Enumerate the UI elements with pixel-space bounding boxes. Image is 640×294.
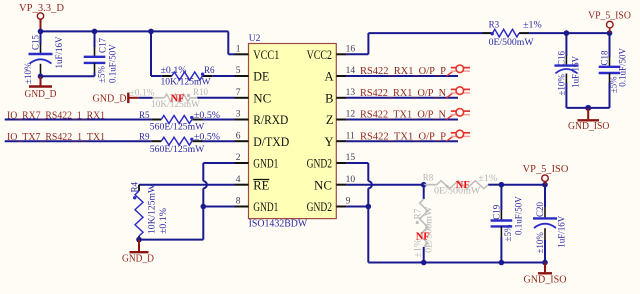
pin 1 VCC1 bbox=[235, 53, 249, 55]
svg-text:13: 13 bbox=[346, 88, 356, 98]
svg-text:0.1uF/50V: 0.1uF/50V bbox=[108, 44, 118, 83]
node R4 bottom bbox=[136, 237, 142, 243]
svg-text:16: 16 bbox=[346, 44, 356, 54]
pin 2 GND1 bbox=[235, 162, 249, 164]
svg-text:IO_TX7_RS422_1_TX1: IO_TX7_RS422_1_TX1 bbox=[7, 132, 105, 143]
svg-text:R10: R10 bbox=[193, 87, 209, 97]
svg-text:C16: C16 bbox=[557, 50, 567, 66]
ground GND_D (left) bbox=[40, 76, 42, 86]
svg-text:GND_ISO: GND_ISO bbox=[524, 274, 567, 285]
node pin8 junction bbox=[201, 204, 207, 210]
pin 11 Y bbox=[336, 140, 346, 142]
svg-text:VCC2: VCC2 bbox=[307, 48, 332, 62]
svg-text:12: 12 bbox=[346, 110, 356, 120]
wire RS422_TX1_O/P_P bbox=[346, 140, 458, 142]
harness port RS422_RX1_O/P_N bbox=[447, 93, 453, 98]
svg-text:±5%: ±5% bbox=[503, 224, 513, 241]
svg-text:0E/500mW: 0E/500mW bbox=[424, 206, 434, 253]
svg-text:6: 6 bbox=[236, 131, 241, 141]
wire C16-C18 gnd bbox=[566, 107, 609, 109]
wire VCC2 to rail bbox=[346, 53, 368, 55]
wire C15-C17 gnd bbox=[41, 75, 95, 77]
svg-text:1: 1 bbox=[236, 44, 241, 54]
svg-text:±1%: ±1% bbox=[523, 19, 542, 29]
svg-text:VP_5_ISO: VP_5_ISO bbox=[588, 11, 631, 22]
svg-text:R9: R9 bbox=[139, 132, 150, 142]
svg-text:IO_RX7_RS422_1_RX1: IO_RX7_RS422_1_RX1 bbox=[7, 110, 105, 121]
wire IO_TX7 net bbox=[5, 140, 152, 142]
svg-text:7: 7 bbox=[236, 88, 241, 98]
svg-text:GND_ISO: GND_ISO bbox=[568, 121, 610, 132]
svg-text:VCC1: VCC1 bbox=[253, 48, 279, 62]
svg-text:0.1uF/50V: 0.1uF/50V bbox=[617, 47, 627, 86]
resistor R9 bbox=[161, 137, 192, 145]
svg-text:±0.5%: ±0.5% bbox=[194, 132, 221, 142]
svg-text:9: 9 bbox=[346, 197, 351, 207]
ground GND_ISO (top) bbox=[587, 108, 589, 119]
svg-text:±1%: ±1% bbox=[478, 173, 498, 183]
wire NC net bbox=[139, 97, 153, 99]
power port VP_5_ISO (bottom) bbox=[544, 181, 546, 185]
pin 6 D/TXD bbox=[235, 140, 249, 142]
svg-text:3: 3 bbox=[236, 110, 241, 120]
svg-text:±10%: ±10% bbox=[557, 74, 567, 96]
svg-text:GND1: GND1 bbox=[253, 200, 278, 214]
svg-text:C15: C15 bbox=[31, 34, 41, 50]
svg-text:R4: R4 bbox=[130, 181, 140, 192]
wire RS422_RX1_O/P_N bbox=[346, 97, 458, 99]
pin 3 R/RXD bbox=[235, 119, 249, 121]
harness port RS422_TX1_O/P_P bbox=[447, 137, 453, 142]
node C17 top bbox=[92, 29, 98, 35]
wire VP_3.3_D rail bbox=[41, 30, 229, 32]
svg-text:GND2: GND2 bbox=[307, 157, 332, 171]
svg-text:15: 15 bbox=[346, 153, 356, 163]
svg-text:±10%: ±10% bbox=[23, 62, 33, 84]
svg-text:±10%: ±10% bbox=[535, 232, 545, 254]
svg-text:560E/125mW: 560E/125mW bbox=[150, 144, 205, 154]
svg-text:RS422_TX1_O/P_P: RS422_TX1_O/P_P bbox=[360, 131, 446, 142]
svg-text:8: 8 bbox=[236, 197, 241, 207]
svg-text:C20: C20 bbox=[535, 201, 545, 217]
resistor R7 (not fitted) bbox=[423, 185, 425, 199]
wire RS422_RX1_O/P_P bbox=[346, 75, 458, 77]
pin 14 A bbox=[336, 75, 346, 77]
power port VP_3.3_D bbox=[37, 13, 43, 19]
svg-text:0.1uF/50V: 0.1uF/50V bbox=[514, 196, 524, 235]
pin 13 B bbox=[336, 97, 346, 99]
svg-text:C19: C19 bbox=[492, 204, 502, 220]
svg-text:±0.5%: ±0.5% bbox=[194, 110, 221, 120]
svg-text:NF: NF bbox=[416, 232, 430, 243]
svg-text:±0.1%: ±0.1% bbox=[130, 87, 156, 97]
capacitor C19 bbox=[500, 185, 502, 210]
node R7 top bbox=[421, 182, 427, 188]
svg-text:4: 4 bbox=[236, 175, 241, 185]
node C19 top bbox=[499, 182, 505, 188]
node C15 top bbox=[38, 29, 44, 35]
svg-text:A: A bbox=[324, 70, 333, 84]
node pin9 junction bbox=[366, 204, 372, 210]
svg-text:C18: C18 bbox=[600, 50, 610, 66]
op-amp U2 ISO1432BDW body bbox=[249, 44, 337, 219]
svg-text:GND_D: GND_D bbox=[122, 253, 154, 264]
svg-text:NF: NF bbox=[171, 94, 185, 105]
svg-text:14: 14 bbox=[346, 66, 356, 76]
svg-text:NC: NC bbox=[253, 92, 271, 106]
svg-text:RS422_RX1_O/P_P: RS422_RX1_O/P_P bbox=[360, 66, 446, 77]
pin 12 Z bbox=[336, 119, 346, 121]
node C20 bottom bbox=[542, 260, 548, 266]
resistor R3 bbox=[493, 29, 519, 37]
capacitor C20 bbox=[544, 185, 546, 207]
pin 15 GND2 bbox=[336, 162, 346, 164]
wire GND2 net bbox=[346, 162, 368, 164]
resistor R10 (not fitted) bbox=[153, 97, 165, 99]
svg-text:2: 2 bbox=[236, 153, 241, 163]
node C19 bottom bbox=[499, 260, 505, 266]
resistor R8 (not fitted) bbox=[437, 181, 488, 189]
svg-text:Y: Y bbox=[324, 135, 333, 149]
svg-text:Z: Z bbox=[326, 113, 334, 127]
node DE branch bbox=[148, 29, 154, 35]
svg-text:DE: DE bbox=[253, 70, 269, 84]
svg-text:R/RXD: R/RXD bbox=[253, 113, 288, 127]
svg-text:D/TXD: D/TXD bbox=[253, 135, 289, 149]
power port VP_5_ISO (top) bbox=[607, 30, 613, 36]
svg-text:RE: RE bbox=[253, 178, 269, 192]
svg-text:±5%: ±5% bbox=[97, 66, 107, 83]
resistor R4 bbox=[138, 185, 140, 191]
svg-text:±0.1%: ±0.1% bbox=[161, 65, 188, 75]
svg-text:1uF/16V: 1uF/16V bbox=[54, 36, 64, 69]
svg-text:R8: R8 bbox=[423, 173, 434, 183]
pin 7 NC bbox=[235, 97, 249, 99]
svg-text:VP_3.3_D: VP_3.3_D bbox=[19, 3, 64, 14]
svg-text:ISO1432BDW: ISO1432BDW bbox=[249, 219, 308, 230]
capacitor C18 bbox=[609, 33, 611, 57]
svg-text:GND_D: GND_D bbox=[25, 89, 57, 100]
resistor R6 bbox=[172, 72, 203, 80]
node C20 top bbox=[542, 182, 548, 188]
svg-text:NF: NF bbox=[456, 180, 470, 191]
svg-text:NC: NC bbox=[314, 178, 332, 192]
svg-text:R7: R7 bbox=[413, 208, 423, 219]
svg-text:GND_D: GND_D bbox=[93, 94, 127, 105]
wire GND1 net bbox=[203, 162, 234, 164]
svg-text:11: 11 bbox=[346, 131, 355, 141]
wire NC pin10 net bbox=[346, 184, 423, 186]
svg-text:10K/125mW: 10K/125mW bbox=[161, 77, 212, 87]
svg-text:U2: U2 bbox=[249, 34, 261, 44]
pin 4 RE bbox=[235, 184, 249, 186]
svg-text:VP_5_ISO: VP_5_ISO bbox=[523, 164, 569, 175]
node GND_ISO top bbox=[585, 105, 591, 111]
wire RS422_TX1_O/P_N bbox=[346, 119, 458, 121]
wire IO_RX7 net bbox=[5, 119, 152, 121]
harness port RS422_RX1_O/P_P bbox=[447, 71, 453, 76]
svg-text:0E/500mW: 0E/500mW bbox=[489, 37, 535, 47]
svg-text:R3: R3 bbox=[489, 19, 500, 29]
node R7 bottom bbox=[421, 260, 427, 266]
capacitor C17 bbox=[94, 31, 96, 47]
svg-text:B: B bbox=[325, 92, 333, 106]
pin 8 GND1 bbox=[235, 206, 249, 208]
svg-text:R6: R6 bbox=[204, 65, 215, 75]
wire RE net bbox=[139, 184, 235, 186]
capacitor C16 bbox=[565, 33, 567, 56]
wire DE net bbox=[150, 31, 152, 76]
resistor R5 bbox=[161, 116, 192, 124]
svg-text:RS422_RX1_O/P_N: RS422_RX1_O/P_N bbox=[360, 88, 446, 99]
svg-text:1uF/16V: 1uF/16V bbox=[557, 215, 567, 248]
svg-text:10: 10 bbox=[346, 175, 356, 185]
svg-text:5: 5 bbox=[236, 66, 241, 76]
svg-text:±0.1%: ±0.1% bbox=[158, 207, 168, 234]
pin 16 VCC2 bbox=[336, 53, 346, 55]
pin 5 DE bbox=[235, 75, 249, 77]
svg-text:GND2: GND2 bbox=[307, 200, 332, 214]
svg-text:C17: C17 bbox=[98, 37, 108, 53]
ground GND_D (bottom) bbox=[138, 240, 140, 252]
svg-text:GND1: GND1 bbox=[253, 157, 278, 171]
svg-text:10K/125mW: 10K/125mW bbox=[147, 183, 157, 234]
node C16 top bbox=[564, 30, 570, 36]
svg-text:560E/125mW: 560E/125mW bbox=[150, 121, 205, 131]
capacitor C15 bbox=[40, 31, 42, 44]
ground GND_ISO (bottom) bbox=[544, 263, 546, 273]
pin 9 GND2 bbox=[336, 206, 346, 208]
svg-text:R5: R5 bbox=[139, 110, 150, 120]
pin 10 NC bbox=[336, 184, 346, 186]
svg-text:1uF/16V: 1uF/16V bbox=[571, 55, 581, 88]
svg-text:RS422_TX1_O/P_N: RS422_TX1_O/P_N bbox=[360, 110, 446, 121]
harness port RS422_TX1_O/P_N bbox=[447, 115, 453, 120]
